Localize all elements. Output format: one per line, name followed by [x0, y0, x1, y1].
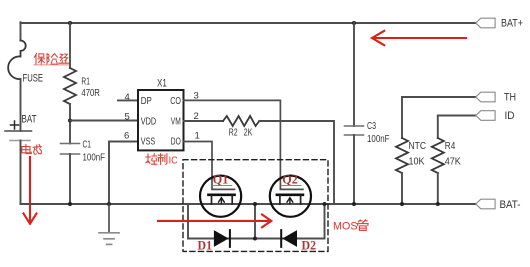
node junction diode right / bottom rail [323, 202, 327, 206]
node junction mid bottom [253, 237, 257, 241]
connector tag TH [476, 92, 495, 102]
resistor R4 branch [437, 116, 439, 139]
wire battery to bottom rail [20, 141, 22, 205]
ground symbol [99, 204, 119, 244]
svg-text:DP: DP [141, 95, 152, 107]
battery BAT plus sign [11, 121, 19, 129]
node junction NTC bottom [400, 202, 404, 206]
wire diode mid branch [254, 204, 256, 239]
op-amp U1 : control IC X1 box [138, 90, 184, 150]
label 保险丝 (red, underlined) [34, 53, 69, 65]
svg-text:NTC: NTC [409, 141, 427, 152]
wire bottom rail [21, 203, 476, 205]
wire R4 to bottom rail [437, 173, 439, 204]
svg-text:6: 6 [124, 130, 129, 141]
thermistor NTC zigzag [396, 138, 408, 173]
svg-text:D1: D1 [198, 237, 213, 252]
diode D1 [214, 230, 229, 247]
battery bottom plate [10, 140, 30, 142]
wire IC pin4 DP stub [118, 99, 138, 101]
wire IC pin2 VM to R2 [184, 120, 224, 122]
svg-text:FUSE: FUSE [23, 73, 44, 85]
svg-text:100nF: 100nF [83, 152, 106, 163]
svg-text:MOS: MOS [333, 220, 358, 232]
svg-text:R2: R2 [229, 128, 238, 139]
thermistor NTC branch [401, 97, 403, 138]
node junction R4 bottom [436, 202, 440, 206]
transistor Q1 source/drain stubs [212, 196, 233, 204]
svg-text:R4: R4 [445, 141, 456, 152]
svg-text:1: 1 [195, 130, 200, 141]
svg-text:Q2: Q2 [282, 171, 298, 186]
svg-text:CO: CO [170, 95, 181, 107]
red arrow down (battery current) [24, 157, 37, 224]
node junction C1 bottom [68, 202, 72, 206]
svg-text:C3: C3 [367, 121, 376, 132]
wire IC pin6 VSS to ground branch [109, 142, 138, 205]
wire R1 to VDD node [69, 104, 71, 144]
wire ID net [438, 115, 476, 117]
wire C1 to bottom rail [69, 154, 71, 204]
node junction top rail / R1 [68, 21, 72, 25]
transistor Q2 channel bar [277, 193, 303, 196]
wire left branch from top rail to fuse [20, 22, 22, 40]
connector tag BAT- [476, 199, 495, 209]
capacitor C3 plates [345, 126, 364, 135]
wire diode branch left [188, 204, 325, 239]
svg-text:100nF: 100nF [367, 134, 390, 145]
label 电芯 (red) [22, 144, 42, 154]
red arrow right (discharge current) [158, 215, 271, 228]
svg-text:ID: ID [505, 110, 515, 122]
svg-text:R1: R1 [81, 76, 90, 87]
red arrow left (charge current, top) [372, 31, 466, 45]
label 控制IC (red) [146, 154, 167, 165]
wire C3 to bottom rail [353, 135, 355, 204]
svg-text:4: 4 [125, 92, 130, 103]
wire R2 to VM sense node [259, 121, 334, 204]
svg-text:2K: 2K [244, 128, 253, 139]
svg-text:5: 5 [125, 112, 130, 123]
svg-text:C1: C1 [83, 140, 92, 151]
wire NTC to bottom rail [401, 173, 403, 204]
svg-text:X1: X1 [157, 78, 167, 90]
wire top rail BAT+ net [21, 22, 476, 24]
node junction C3 bottom [352, 202, 356, 206]
svg-text:BAT+: BAT+ [501, 17, 523, 29]
transistor Q2 circle [270, 176, 311, 217]
resistor R1 zigzag [64, 68, 76, 104]
transistor Q1 circle [200, 176, 241, 217]
battery top plate [5, 130, 32, 132]
transistor Q1 channel bar [209, 193, 235, 196]
svg-text:D2: D2 [302, 237, 317, 252]
svg-text:IC: IC [169, 155, 178, 167]
resistor R2 zigzag [223, 116, 259, 126]
wire top rail to R1 [69, 23, 71, 68]
resistor R4 zigzag [432, 138, 444, 173]
svg-text:VDD: VDD [141, 115, 157, 127]
connector tag BAT+ [476, 18, 495, 28]
svg-text:VSS: VSS [141, 136, 155, 148]
node junction VSS / bottom rail [107, 202, 111, 206]
wire IC pin1 DO to Q1 gate [184, 142, 235, 190]
svg-text:VM: VM [171, 115, 181, 127]
svg-text:DO: DO [171, 136, 181, 148]
svg-text:Q1: Q1 [213, 171, 229, 186]
svg-text:TH: TH [504, 91, 516, 103]
svg-text:BAT-: BAT- [500, 199, 521, 211]
wire top rail to C3 [353, 23, 355, 126]
fuse F1 symbol [8, 41, 26, 80]
connector tag ID [476, 111, 495, 121]
MOS area dashed box [183, 160, 328, 252]
svg-text:470R: 470R [81, 88, 100, 99]
transistor Q1 substrate arrow [219, 198, 225, 204]
diode D2 [282, 230, 297, 247]
wire VDD net to IC pin5 [70, 120, 138, 122]
wire IC pin3 CO to Q2 gate [184, 100, 303, 189]
svg-text:47K: 47K [445, 157, 461, 168]
svg-text:BAT: BAT [22, 114, 37, 126]
capacitor C3 node on top rail [352, 21, 356, 25]
svg-text:10K: 10K [409, 157, 425, 168]
capacitor C1 plates [61, 144, 80, 155]
transistor Q2 substrate arrow [287, 198, 293, 204]
node junction VDD net [68, 119, 72, 123]
transistor Q2 source/drain stubs [280, 196, 301, 204]
wire TH net [402, 96, 476, 98]
node junction mid top [253, 202, 257, 206]
wire fuse to battery [20, 79, 22, 131]
